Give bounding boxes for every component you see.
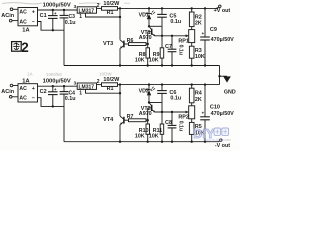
svg-text:3: 3: [74, 80, 77, 85]
designator label VD2 (bottom channel): [139, 89, 149, 95]
svg-text:2K: 2K: [195, 21, 202, 27]
svg-text:1A: 1A: [22, 27, 29, 33]
pin 2 label (bottom channel): [97, 79, 100, 85]
svg-text:0.1u: 0.1u: [65, 96, 76, 102]
svg-text:1000µ/50V: 1000µ/50V: [43, 2, 71, 8]
wire reference node to R9 (top channel): [161, 26, 163, 48]
designator label R1 (top channel): [107, 10, 114, 16]
svg-text:ACin: ACin: [1, 13, 14, 19]
svg-text:A970: A970: [139, 35, 152, 41]
regulator IC LM317 (top channel): [77, 7, 96, 15]
transistor VT2 A970 (bottom channel): [148, 103, 156, 121]
value label 0.1u vertical for C7 (top channel): [177, 45, 183, 55]
svg-text:C1: C1: [40, 13, 47, 19]
svg-text:VT4: VT4: [103, 117, 114, 123]
wire main rail to output (top channel): [120, 7, 217, 9]
svg-text:10/2W: 10/2W: [103, 1, 120, 7]
node R1 output junction (top channel): [119, 7, 121, 9]
designator label C7 (top channel): [165, 44, 172, 50]
svg-text:0.1u: 0.1u: [177, 45, 183, 55]
resistor R4 2K (bottom channel): [189, 83, 194, 105]
watermark logo: [193, 126, 231, 142]
value label 10K for R11 (bottom channel): [149, 134, 159, 140]
svg-text:C9: C9: [210, 27, 217, 33]
svg-text:1A: 1A: [22, 79, 29, 85]
value label 10K for R8 (top channel): [135, 57, 145, 63]
svg-text:R3: R3: [195, 48, 202, 54]
svg-text:RP1: RP1: [178, 38, 189, 44]
capacitor C2 1000u/50V (bottom channel): [40, 85, 58, 108]
capacitor C1 1000u/50V (top channel): [40, 9, 58, 32]
svg-text:www.jd-bbs.com: www.jd-bbs.com: [203, 138, 229, 142]
svg-text:AC: AC: [19, 86, 27, 92]
svg-text:1000µ/50V: 1000µ/50V: [43, 79, 71, 85]
transistor VT1 A970 (top channel): [148, 26, 156, 44]
svg-text:AC: AC: [19, 96, 27, 102]
resistor R1 10/2W (bottom channel): [102, 83, 121, 87]
svg-text:R1: R1: [107, 86, 114, 92]
svg-text:AC: AC: [19, 10, 27, 16]
wire LM317 adj pin (bottom channel): [86, 89, 122, 94]
ground GND symbol: [220, 76, 231, 82]
wire LM317 adj pin (top channel): [86, 13, 122, 18]
wire reference node to R11 (bottom channel): [161, 103, 163, 125]
transistor VT3 (top channel): [119, 40, 129, 67]
capacitor C5 0.1u (top channel): [157, 7, 167, 26]
svg-text:10/2W: 10/2W: [103, 77, 120, 83]
node R1 output junction (bottom channel): [119, 83, 121, 85]
resistor R5 10K (bottom channel): [189, 122, 194, 142]
transistor VT4 (bottom channel): [119, 116, 129, 143]
fuse rating label 1A (top channel): [22, 27, 29, 33]
node GND junction: [218, 75, 220, 77]
wire bridge + output to regulator input (top channel): [38, 9, 78, 11]
pin 3 label (top channel): [74, 4, 77, 9]
designator label VT1 (top channel): [141, 30, 151, 36]
designator label VT3 (top channel): [103, 41, 113, 47]
value label 0.1u vertical for C8 (bottom channel): [177, 121, 183, 131]
value label 0.1u for C4 (bottom channel): [65, 96, 76, 102]
wire main rail to output (bottom channel): [120, 84, 220, 86]
resistor R9 10K (top channel): [160, 48, 164, 67]
wire bridge - output to ground rail (bottom channel): [38, 98, 65, 107]
value label 10/2W (bottom channel): [103, 77, 120, 83]
value label 10/2W (top channel): [103, 1, 120, 7]
svg-text:RP2: RP2: [178, 115, 189, 121]
wire ground drop to common rail (bottom channel): [63, 106, 65, 141]
svg-text:470µ/50V: 470µ/50V: [211, 37, 235, 43]
node reference wire (top channel): [148, 25, 162, 27]
value label A970 (bottom channel): [139, 111, 152, 117]
svg-text:+: +: [54, 11, 57, 16]
potentiometer RP1 (top channel): [189, 30, 195, 47]
value label 470u/50V (top channel): [211, 37, 235, 43]
output terminal +V out (top channel): [216, 5, 221, 9]
wire R1 node down to VT3 (top channel): [119, 8, 121, 39]
faint scan ghost row: [27, 71, 113, 77]
svg-text:C2: C2: [40, 89, 47, 95]
value label 10K for R9 (top channel): [149, 57, 159, 63]
figure caption 2 (boxed char): [12, 40, 29, 55]
wire VT2 emitter to RP2 wiper (bottom channel): [155, 111, 189, 114]
value label 1000u/50V (bottom channel): [43, 79, 71, 85]
resistor R6 (top channel): [129, 43, 149, 46]
svg-text:10K: 10K: [149, 134, 159, 140]
capacitor C8 0.1u (bottom channel): [168, 111, 177, 143]
designator label R7 (bottom channel): [127, 114, 134, 120]
value label 2K (bottom channel): [195, 97, 202, 103]
svg-text:ACin: ACin: [1, 89, 14, 95]
AC input terminals (top channel): [1, 8, 18, 22]
wire ground drop to common rail (top channel): [63, 30, 65, 65]
svg-text:1: 1: [79, 14, 82, 20]
wire channel-ground tie: [219, 66, 221, 85]
svg-text:.cn: .cn: [227, 138, 232, 142]
svg-text:2: 2: [21, 40, 29, 55]
zener diode VD2 (bottom channel): [146, 83, 155, 102]
designator label RP2 (bottom channel): [178, 115, 189, 121]
label +V out (top channel): [214, 8, 231, 14]
capacitor C6 0.1u (bottom channel): [157, 83, 167, 102]
designator label R8 (top channel): [139, 52, 146, 58]
value label 2K (top channel): [195, 21, 202, 27]
resistor R8 10K (top channel): [146, 44, 150, 67]
fuse rating label 1A (bottom channel): [22, 79, 29, 85]
wire LM317 output to R1 (top channel): [97, 7, 102, 9]
svg-text:2K: 2K: [195, 97, 202, 103]
faint scan text band: [2, 3, 130, 4]
designator label VT2 (bottom channel): [141, 106, 151, 112]
svg-text:R1: R1: [107, 10, 114, 16]
svg-text:+: +: [54, 87, 57, 92]
svg-text:R2: R2: [195, 14, 202, 20]
svg-text:10K: 10K: [135, 134, 145, 140]
svg-text:470µ/50V: 470µ/50V: [211, 111, 235, 117]
svg-text:A970: A970: [139, 111, 152, 117]
svg-text:10K: 10K: [149, 57, 159, 63]
svg-text:+: +: [32, 10, 35, 16]
designator label R6 (top channel): [127, 38, 134, 44]
svg-text:VD2: VD2: [139, 89, 149, 95]
bridge rectifier B1 (top channel): [18, 8, 38, 26]
svg-text:10K: 10K: [135, 57, 145, 63]
svg-text:C10: C10: [210, 104, 220, 110]
svg-text:-V out: -V out: [215, 143, 230, 149]
svg-text:1: 1: [79, 90, 82, 96]
svg-text:0.1u: 0.1u: [170, 95, 181, 101]
designator label R3 (top channel): [195, 48, 202, 54]
label -V out (bottom channel): [215, 143, 230, 149]
capacitor C7 0.1u (top channel): [168, 35, 177, 67]
svg-text:0.1u: 0.1u: [170, 19, 181, 25]
resistor R3 10K (top channel): [189, 46, 194, 67]
value label 0.1u for C5 (top channel): [170, 19, 181, 25]
designator label R4 (bottom channel): [195, 91, 202, 97]
AC input terminals (bottom channel): [1, 84, 18, 98]
designator label R1 (bottom channel): [107, 86, 114, 92]
svg-text:R4: R4: [195, 91, 202, 97]
svg-text:1A: 1A: [27, 72, 33, 77]
wire bridge + output to regulator input (bottom channel): [38, 85, 78, 87]
capacitor C9 470u/50V (top channel): [200, 7, 210, 67]
value label 10K for R3 (top channel): [195, 54, 205, 60]
bridge rectifier B2 (bottom channel): [18, 84, 38, 102]
svg-text:+: +: [202, 111, 205, 116]
svg-text:–: –: [32, 95, 35, 101]
capacitor C3 0.1u (top channel): [60, 9, 76, 30]
designator label C9 (top channel): [210, 27, 217, 33]
svg-text:VT3: VT3: [103, 41, 113, 47]
node reference wire (bottom channel): [148, 101, 162, 103]
pin 1 label (top channel): [79, 14, 82, 20]
wire LM317 output to R1 (bottom channel): [97, 84, 102, 86]
svg-text:R7: R7: [127, 114, 134, 120]
designator label C8 (bottom channel): [165, 120, 172, 126]
capacitor C10 470u/50V (bottom channel): [200, 83, 210, 142]
svg-text:+V out: +V out: [214, 8, 231, 14]
output terminal -V out (bottom channel): [219, 139, 223, 142]
resistor R7 (bottom channel): [129, 119, 149, 122]
pin 2 label (top channel): [97, 3, 100, 9]
svg-text:0.1u: 0.1u: [65, 20, 76, 26]
value label 10K for R10 (bottom channel): [135, 134, 145, 140]
svg-text:AC: AC: [19, 19, 27, 25]
designator label VD1 (top channel): [139, 13, 149, 19]
capacitor C4 0.1u (bottom channel): [60, 85, 76, 106]
designator label R10 (bottom channel): [139, 128, 149, 134]
resistor R11 10K (bottom channel): [160, 124, 164, 143]
value label 470u/50V (bottom channel): [211, 111, 235, 117]
svg-text:+: +: [202, 31, 205, 36]
value label 10K for R5 (bottom channel): [195, 130, 205, 136]
designator label VT4 (bottom channel): [103, 117, 114, 123]
resistor R10 10K (bottom channel): [146, 120, 150, 143]
pin 3 label (bottom channel): [74, 80, 77, 85]
designator label C6 (bottom channel): [169, 90, 176, 96]
designator label C5 (top channel): [169, 14, 176, 20]
potentiometer RP2 (bottom channel): [189, 106, 195, 123]
designator label R11 (bottom channel): [153, 128, 162, 134]
label GND: [224, 90, 236, 96]
designator label C10 (bottom channel): [210, 104, 220, 110]
regulator IC LM317 (bottom channel): [77, 83, 96, 91]
resistor R1 10/2W (top channel): [102, 7, 121, 11]
svg-text:0.1u: 0.1u: [177, 121, 183, 131]
svg-text:C7: C7: [165, 44, 172, 50]
svg-text:C8: C8: [165, 120, 172, 126]
svg-text:10K: 10K: [195, 54, 205, 60]
svg-text:R6: R6: [127, 38, 134, 44]
svg-text:+: +: [32, 86, 35, 92]
wire bridge - output to ground rail (top channel): [38, 22, 65, 31]
wire R1 node down to VT4 (bottom channel): [119, 85, 121, 116]
designator label R2 (top channel): [195, 14, 202, 20]
value label 0.1u for C6 (bottom channel): [170, 95, 181, 101]
designator label R5 (bottom channel): [195, 124, 202, 130]
pin 1 label (bottom channel): [79, 90, 82, 96]
wire common rail (top channel): [64, 65, 220, 67]
zener diode VD1 (top channel): [146, 7, 155, 26]
svg-text:VD1: VD1: [139, 13, 149, 19]
svg-text:3: 3: [74, 4, 77, 9]
resistor R2 2K (top channel): [189, 7, 194, 29]
value label 1000u/50V (top channel): [43, 2, 71, 8]
svg-text:1000/50: 1000/50: [46, 72, 62, 77]
svg-text:–: –: [32, 19, 35, 25]
value label A970 (top channel): [139, 35, 152, 41]
designator label RP1 (top channel): [178, 38, 189, 44]
svg-text:10/2W: 10/2W: [99, 71, 113, 76]
wire common rail (bottom channel): [64, 141, 219, 143]
wire VT1 emitter to RP1 wiper (top channel): [155, 34, 189, 37]
designator label R9 (top channel): [153, 52, 160, 58]
value label 0.1u for C3 (top channel): [65, 20, 76, 26]
svg-text:GND: GND: [224, 90, 236, 96]
